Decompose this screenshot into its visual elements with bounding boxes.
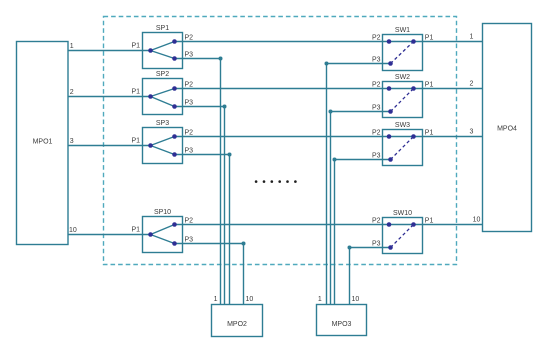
svg-text:P3: P3 (185, 51, 194, 58)
junction SP1 P3 (219, 57, 223, 61)
svg-text:SW3: SW3 (395, 122, 410, 129)
pin label P2 (SP2) (185, 81, 194, 88)
label SP2 (156, 71, 169, 78)
svg-text:10: 10 (473, 217, 481, 224)
svg-text:10: 10 (69, 227, 77, 234)
svg-text:P2: P2 (372, 82, 381, 89)
pin label 10 (MPO3) (352, 296, 360, 303)
pin label 1 (MPO4) (470, 34, 474, 41)
svg-text:SW1: SW1 (395, 27, 410, 34)
wire SP10 P2 to SW10 P2 (175, 224, 390, 226)
svg-text:1: 1 (318, 296, 322, 303)
svg-text:SP1: SP1 (156, 25, 169, 32)
wire SP1 P3 to MPO2 pin1 (175, 59, 221, 305)
pin label P2 (SP1) (185, 34, 194, 41)
splitter SP1 (143, 33, 183, 69)
pin label P2 (SP10) (185, 217, 194, 224)
wire MPO3 pin1 to SW1 P3 (327, 64, 391, 305)
wire SW2 P1 to MPO4 pin2 (414, 88, 483, 90)
svg-text:P2: P2 (185, 34, 194, 41)
pin label P3 (SW3) (372, 153, 381, 160)
pin label P1 (SW1) (425, 35, 434, 42)
svg-text:SP3: SP3 (156, 120, 169, 127)
svg-text:P1: P1 (425, 35, 434, 42)
wire MPO1 pin3 to SP3 P1 (68, 145, 151, 147)
svg-text:MPO3: MPO3 (332, 321, 352, 328)
svg-text:SP2: SP2 (156, 71, 169, 78)
pin label P3 (SP10) (185, 236, 194, 243)
junction SP10 P3 (242, 242, 246, 246)
svg-text:P2: P2 (185, 81, 194, 88)
pin label P3 (SP3) (185, 147, 194, 154)
pin label P1 (SP10) (131, 227, 140, 234)
ellipsis dots (SP4..SP9 omitted) (255, 180, 297, 183)
svg-text:P1: P1 (425, 218, 434, 225)
label SW1 (395, 27, 410, 34)
label SP3 (156, 120, 169, 127)
wire MPO1 pin10 to SP10 P1 (68, 234, 151, 236)
junction SP3 P3 (228, 153, 232, 157)
pin label P2 (SP3) (185, 129, 194, 136)
wire SP2 P3 to MPO2 pin2 (175, 107, 225, 305)
label SP1 (156, 25, 169, 32)
svg-text:1: 1 (470, 34, 474, 41)
svg-text:P2: P2 (372, 35, 381, 42)
connector MPO2 (212, 305, 263, 337)
pin label 10 (MPO4) (473, 217, 481, 224)
switch SW10 (383, 218, 423, 254)
svg-text:2: 2 (470, 81, 474, 88)
splitter SP2 (143, 79, 183, 115)
svg-text:10: 10 (246, 296, 254, 303)
dashed enclosure box (104, 17, 457, 265)
label SW2 (395, 74, 410, 81)
svg-text:1: 1 (70, 43, 74, 50)
switch SW2 (383, 82, 423, 118)
pin label 2 (MPO1) (70, 89, 74, 96)
wire MPO3 pin2 to SW2 P3 (331, 112, 391, 305)
pin label 2 (MPO4) (470, 81, 474, 88)
switch SW1 (383, 35, 423, 71)
label SP10 (154, 209, 171, 216)
svg-text:P1: P1 (131, 89, 140, 96)
connector MPO1 (17, 42, 69, 245)
wire SP2 P2 to SW2 P2 (175, 88, 390, 90)
pin label P2 (SW2) (372, 82, 381, 89)
pin label 3 (MPO4) (470, 129, 474, 136)
wire SW1 P1 to MPO4 pin1 (414, 41, 483, 43)
switch SW3 (383, 130, 423, 166)
pin label P2 (SW3) (372, 130, 381, 137)
pin label P1 (SW10) (425, 218, 434, 225)
wire SP10 P3 to MPO2 pin10 (175, 244, 244, 305)
svg-text:P1: P1 (131, 138, 140, 145)
wire MPO1 pin1 to SP1 P1 (68, 50, 151, 52)
svg-text:P3: P3 (372, 57, 381, 64)
wire MPO3 pin10 to SW10 P3 (350, 248, 391, 305)
svg-text:MPO1: MPO1 (33, 139, 53, 146)
svg-text:P1: P1 (425, 130, 434, 137)
svg-text:MPO4: MPO4 (497, 126, 517, 133)
svg-text:10: 10 (352, 296, 360, 303)
svg-text:3: 3 (70, 138, 74, 145)
pin label 10 (MPO2) (246, 296, 254, 303)
junction SP2 P3 (223, 105, 227, 109)
svg-text:MPO2: MPO2 (227, 321, 247, 328)
pin label P3 (SW1) (372, 57, 381, 64)
pin label 1 (MPO3) (318, 296, 322, 303)
pin label 10 (MPO1) (69, 227, 77, 234)
junction SW10 P3 (348, 246, 352, 250)
svg-text:P3: P3 (372, 105, 381, 112)
svg-text:P3: P3 (185, 147, 194, 154)
pin label P1 (SW2) (425, 82, 434, 89)
pin label P1 (SP3) (131, 138, 140, 145)
pin label P2 (SW1) (372, 35, 381, 42)
pin label P1 (SW3) (425, 130, 434, 137)
wire SP3 P3 to MPO2 pin3 (175, 155, 230, 305)
svg-text:P3: P3 (372, 241, 381, 248)
junction SW1 P3 (325, 62, 329, 66)
label SW10 (393, 210, 412, 217)
label SW3 (395, 122, 410, 129)
svg-text:P3: P3 (185, 236, 194, 243)
pin label P3 (SP1) (185, 51, 194, 58)
svg-text:P3: P3 (372, 153, 381, 160)
pin label P3 (SP2) (185, 99, 194, 106)
connector MPO4 (483, 24, 532, 232)
splitter SP10 (143, 217, 183, 253)
svg-text:P2: P2 (372, 130, 381, 137)
pin label P3 (SW10) (372, 241, 381, 248)
pin label P1 (SP2) (131, 89, 140, 96)
svg-text:3: 3 (470, 129, 474, 136)
pin label 1 (MPO2) (214, 296, 218, 303)
junction SW2 P3 (329, 110, 333, 114)
pin label P3 (SW2) (372, 105, 381, 112)
wire SW10 P1 to MPO4 pin10 (414, 224, 483, 226)
junction SW3 P3 (333, 158, 337, 162)
connector MPO3 (317, 305, 367, 336)
pin label P2 (SW10) (372, 218, 381, 225)
wire MPO3 pin3 to SW3 P3 (335, 160, 391, 305)
svg-text:P2: P2 (185, 129, 194, 136)
wire SP3 P2 to SW3 P2 (175, 136, 390, 138)
svg-text:P1: P1 (425, 82, 434, 89)
svg-text:P3: P3 (185, 99, 194, 106)
pin label 3 (MPO1) (70, 138, 74, 145)
svg-text:SW10: SW10 (393, 210, 412, 217)
wire SW3 P1 to MPO4 pin3 (414, 136, 483, 138)
svg-text:SW2: SW2 (395, 74, 410, 81)
svg-text:P2: P2 (372, 218, 381, 225)
splitter SP3 (143, 128, 183, 164)
pin label P1 (SP1) (131, 43, 140, 50)
svg-text:P1: P1 (131, 43, 140, 50)
svg-text:SP10: SP10 (154, 209, 171, 216)
wire SP1 P2 to SW1 P2 (175, 41, 390, 43)
svg-text:P2: P2 (185, 217, 194, 224)
wire MPO1 pin2 to SP2 P1 (68, 96, 151, 98)
svg-text:2: 2 (70, 89, 74, 96)
svg-text:1: 1 (214, 296, 218, 303)
svg-text:P1: P1 (131, 227, 140, 234)
pin label 1 (MPO1) (70, 43, 74, 50)
